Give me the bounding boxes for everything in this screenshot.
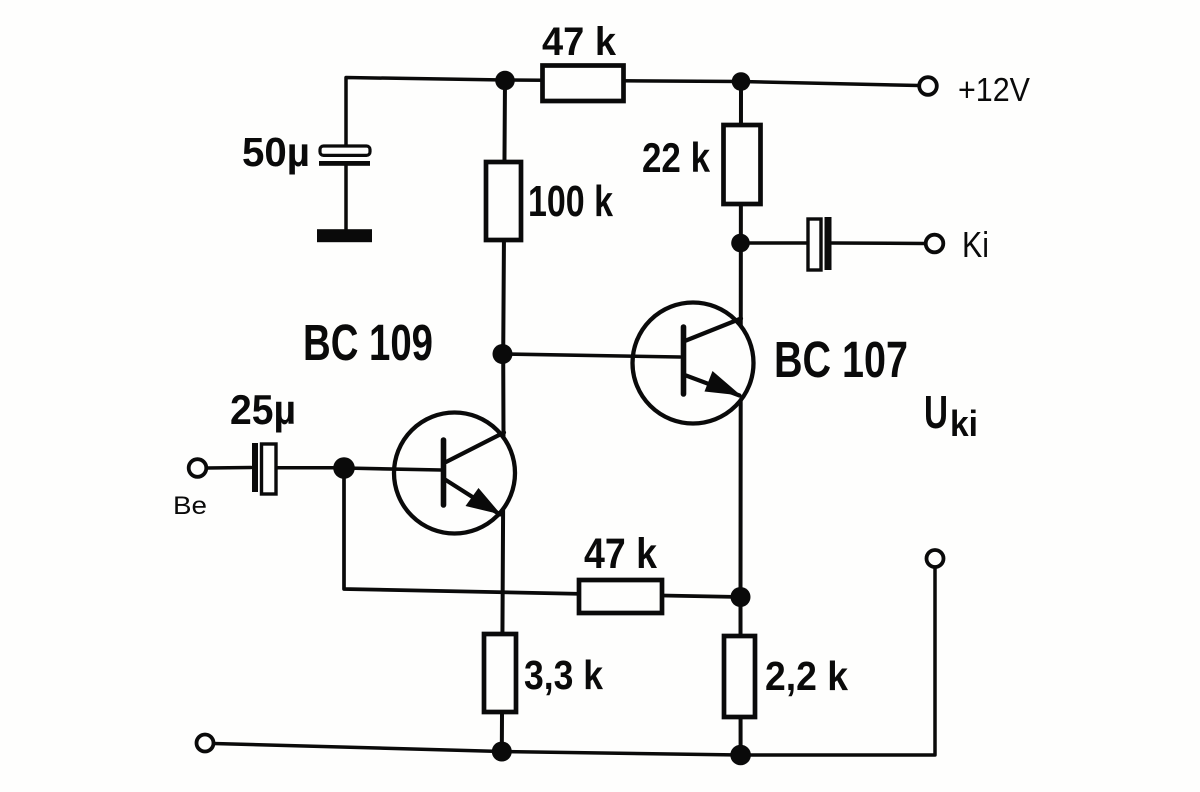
svg-text:2,2 k: 2,2 k	[765, 653, 848, 699]
svg-text:+12V: +12V	[958, 71, 1030, 108]
svg-text:BC 109: BC 109	[303, 314, 433, 371]
svg-text:22 k: 22 k	[642, 134, 711, 181]
svg-text:47 k: 47 k	[542, 20, 617, 64]
svg-text:BC 107: BC 107	[774, 331, 908, 388]
svg-text:25µ: 25µ	[230, 386, 296, 433]
svg-text:50µ: 50µ	[242, 129, 310, 175]
svg-text:U: U	[924, 386, 948, 438]
svg-text:3,3 k: 3,3 k	[524, 652, 603, 698]
svg-text:ki: ki	[950, 403, 978, 444]
svg-text:Ki: Ki	[962, 224, 989, 265]
svg-text:Be: Be	[173, 492, 207, 520]
svg-text:100 k: 100 k	[528, 177, 613, 226]
svg-text:47 k: 47 k	[584, 530, 657, 578]
